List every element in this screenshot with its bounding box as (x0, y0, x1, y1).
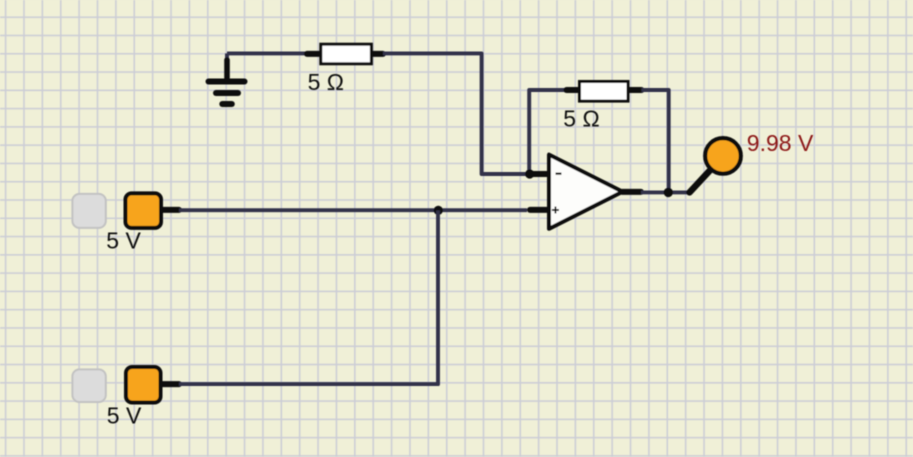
svg-text:5 Ω: 5 Ω (308, 69, 344, 95)
resistor R1 (307, 44, 383, 64)
op-amp U1 (530, 155, 641, 229)
source V1 toggle (72, 194, 105, 228)
source V2 toggle (72, 369, 105, 402)
svg-text:5 Ω: 5 Ω (563, 105, 599, 131)
source V2 (126, 367, 179, 403)
resistor R2 (567, 82, 642, 102)
wire feedback left (529, 90, 566, 174)
node output junction (664, 188, 673, 197)
wire feedback right (642, 90, 669, 192)
svg-text:9.98 V: 9.98 V (747, 130, 814, 156)
probe lead (690, 166, 715, 192)
wire R1 to inverting input (383, 53, 530, 174)
svg-text:5 V: 5 V (107, 403, 142, 429)
wire V1 to non-inverting input (179, 208, 527, 212)
wire op-amp output (641, 190, 690, 194)
probe P1 (705, 138, 741, 174)
node inverting input junction (525, 169, 534, 178)
svg-text:5 V: 5 V (106, 228, 141, 254)
wire V2 to junction (179, 210, 438, 384)
wire ground to R1 (227, 51, 307, 55)
ground (209, 53, 245, 104)
source V1 (126, 193, 180, 228)
node non-inverting junction (434, 206, 443, 215)
